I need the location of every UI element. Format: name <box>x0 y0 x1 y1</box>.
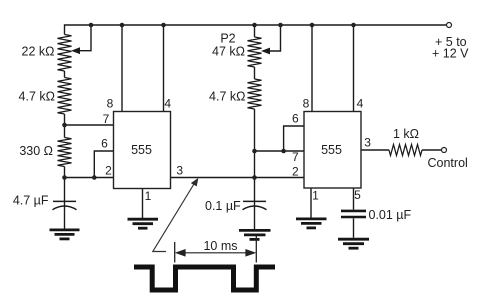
wire: IC2 pin 1 to ground <box>310 189 312 218</box>
potentiometer P2 47 kOhm body <box>248 37 262 67</box>
svg-text:6: 6 <box>101 137 108 151</box>
wire: IC2 pin 8 to power rail <box>311 25 313 112</box>
junction dot: IC2 pin4 at rail <box>351 23 356 28</box>
svg-text:555: 555 <box>321 143 342 157</box>
wire: rail down to pot P2 <box>254 25 256 37</box>
P2 wiper arrowhead <box>261 48 270 55</box>
svg-text:555: 555 <box>131 143 152 157</box>
wire: +V power rail <box>65 24 447 26</box>
capacitor C1 4.7uF top plate <box>53 200 76 202</box>
svg-text:8: 8 <box>107 97 114 111</box>
svg-text:5: 5 <box>354 188 361 202</box>
svg-text:7: 7 <box>103 112 110 126</box>
wire: IC1 pin 1 to ground <box>142 189 144 219</box>
svg-text:6: 6 <box>292 112 299 126</box>
dimension arrow 10 ms double-headed <box>177 250 255 256</box>
svg-text:10 ms: 10 ms <box>203 239 237 253</box>
dimension tick left <box>174 242 176 263</box>
junction dot: P2 wiper at rail <box>278 23 283 28</box>
svg-text:2: 2 <box>292 165 299 179</box>
wire: IC1 pin 6 jog down to node B <box>94 151 113 178</box>
junction dot: node B pin2 left <box>62 175 67 180</box>
dimension tick right <box>255 236 257 263</box>
wire: IC2 pin 7 to node C <box>255 150 305 152</box>
wire: IC1 pin 7 to node A <box>65 124 114 126</box>
wire: R5 to Control terminal <box>422 149 442 151</box>
svg-text:4: 4 <box>357 97 364 111</box>
wire: node B to IC1 pin 2 <box>65 177 114 179</box>
capacitor C2 0.1uF top plate <box>243 200 266 202</box>
wire: P2 wiper to power rail <box>269 25 281 51</box>
junction dot: IC1 pin8 at rail <box>120 23 125 28</box>
svg-text:4.7 µF: 4.7 µF <box>13 194 49 208</box>
resistor R3 330 Ohm body <box>58 138 72 167</box>
capacitor C3 0.01uF plates <box>341 211 366 217</box>
wire: IC2 pin 3 output to R5 <box>361 149 389 151</box>
resistor R4 4.7 kOhm body <box>248 79 262 109</box>
wire: R3 to node B (pin2/6 node) and down to C1 <box>64 167 66 229</box>
junction dot: pin2 node on output wire <box>252 175 257 180</box>
svg-text:330 Ω: 330 Ω <box>19 144 53 158</box>
svg-text:Control: Control <box>428 156 468 170</box>
svg-text:47 kΩ: 47 kΩ <box>212 45 245 59</box>
wire: rail corner down to 22k pot <box>64 24 66 34</box>
R1 wiper arrowhead <box>71 47 80 54</box>
svg-text:22 kΩ: 22 kΩ <box>22 45 55 59</box>
ground: below C2 <box>239 230 271 239</box>
junction dot: node C pin7 right chain <box>252 149 257 154</box>
junction dot: IC1 pin4 at rail <box>161 23 166 28</box>
svg-text:7: 7 <box>292 150 299 164</box>
svg-text:0.1 µF: 0.1 µF <box>205 199 241 213</box>
op-amp U2: 555 timer IC box <box>304 112 361 189</box>
svg-text:+ 12 V: + 12 V <box>432 47 469 61</box>
svg-text:3: 3 <box>176 164 183 178</box>
capacitor C2 0.1uF curved bottom plate <box>243 206 267 210</box>
svg-text:4.7 kΩ: 4.7 kΩ <box>19 90 55 104</box>
callout arrow from waveform to pin 3 output node <box>153 182 196 252</box>
svg-text:2: 2 <box>105 164 112 178</box>
svg-text:0.01 µF: 0.01 µF <box>369 208 412 222</box>
svg-text:4: 4 <box>164 97 171 111</box>
junction dot: pin6 tap on node C wire <box>281 149 286 154</box>
junction dot: IC2 pin8 at rail <box>310 23 315 28</box>
resistor R5 1 kOhm body <box>389 145 422 156</box>
potentiometer R1 22 kOhm body <box>58 35 72 72</box>
ground: below C1 <box>50 230 80 239</box>
ground: below C3 <box>338 239 369 248</box>
svg-text:3: 3 <box>364 136 371 150</box>
wire: R4 down through pin7 node and pin2 node to C2 <box>254 109 256 229</box>
wire: R2 to node A (pin7 node) <box>64 114 66 138</box>
junction dot: node A pin7 left <box>62 123 67 128</box>
svg-text:1: 1 <box>145 189 152 203</box>
resistor R2 4.7 kOhm body <box>58 78 72 115</box>
terminal: +V open circle <box>447 23 452 28</box>
wire: R1 to R2 lead <box>64 71 66 78</box>
ground: IC2 pin 1 <box>296 219 327 228</box>
waveform: output square wave <box>134 267 275 290</box>
op-amp U1: 555 timer IC box <box>114 112 171 189</box>
junction dot: R1 wiper at rail <box>89 23 94 28</box>
wire: R1 wiper to power rail <box>79 25 92 51</box>
svg-text:1: 1 <box>312 189 319 203</box>
wire: IC2 pin 6 jog down to node C <box>284 126 304 151</box>
wire: IC1 pin 8 to power rail <box>121 25 123 112</box>
terminal: Control open circle <box>442 148 447 153</box>
capacitor C1 4.7uF curved bottom plate <box>53 206 77 210</box>
wire: IC1 pin 3 output to IC2 pin 2 <box>171 177 305 179</box>
svg-text:4.7 kΩ: 4.7 kΩ <box>209 90 245 104</box>
wire: IC2 pin 4 to power rail <box>353 25 355 112</box>
svg-text:P2: P2 <box>220 32 235 46</box>
svg-text:8: 8 <box>303 97 310 111</box>
junction dot: P2 top at rail <box>252 23 257 28</box>
svg-text:1 kΩ: 1 kΩ <box>393 127 419 141</box>
ground: IC1 pin 1 <box>128 219 159 228</box>
callout arrowhead <box>191 178 199 187</box>
wire: IC2 pin 5 to C3 <box>353 189 355 210</box>
wire: IC1 pin 4 to power rail <box>163 25 165 112</box>
wire: P2 to R4 lead <box>254 67 256 79</box>
wire: C3 to ground <box>353 218 355 238</box>
junction dot: pin6 tap on node B wire <box>92 175 97 180</box>
